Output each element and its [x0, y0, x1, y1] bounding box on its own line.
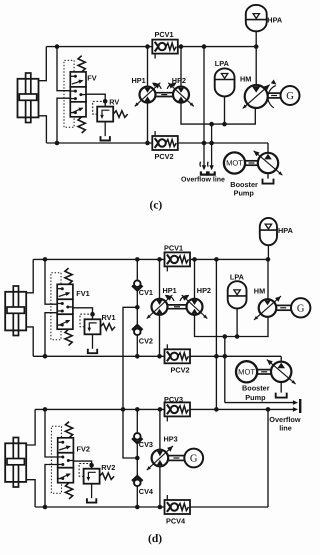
wire: vertical x224 line3-to-overflow [224, 337, 226, 403]
junction: HP1 bottom / bus2 [157, 354, 162, 359]
junction: overflow 1 / bottom bus [202, 141, 207, 146]
junction: x224 / bus2 [223, 354, 228, 359]
junction: x224 / line3 [223, 334, 228, 339]
svg-text:LPA: LPA [230, 273, 245, 282]
pilot check valve PCV4 [165, 500, 191, 514]
junction: FV2-B / bus4 [43, 505, 48, 510]
junction: HPA1 / bus1 [266, 257, 271, 262]
directional valve FV2 [58, 438, 74, 453]
wire: overflow line upper (to the right) [225, 402, 294, 404]
hydraulic cylinder (d) lower [13, 438, 18, 488]
svg-text:PCV2: PCV2 [155, 152, 174, 161]
junction: HPA / HM node [254, 44, 259, 49]
svg-text:PCV1: PCV1 [164, 243, 183, 252]
svg-text:(d): (d) [148, 533, 162, 545]
svg-text:CV4: CV4 [139, 487, 154, 496]
junction: overflow 2 / bottom bus [209, 141, 214, 146]
wire: cylinder bottom port to bottom bus [38, 116, 46, 143]
pilot check valve PCV1 (d) [165, 252, 191, 266]
svg-text:Pump: Pump [245, 393, 266, 402]
wire: FV pressure port to RV [86, 94, 105, 106]
directional valve FV1 [57, 284, 73, 299]
rotation arrows (d) [166, 295, 175, 301]
shaft HP1-HP2 (d) [168, 304, 186, 306]
wire: FV1 port A [45, 259, 57, 304]
junction: x216 end / bus3 [214, 407, 219, 412]
wire: cylinder top port to top bus [38, 47, 46, 81]
wire: HP3 bottom [159, 466, 161, 507]
wire: FV1 port B [45, 313, 57, 357]
hydraulic motor HM (d) [259, 299, 277, 317]
junction: FV-B / bottom bus [55, 141, 60, 146]
wire: LPA drop line [224, 96, 226, 124]
wire: FV2 port A [45, 409, 58, 457]
wire: HP1 top port [147, 47, 149, 87]
booster pump [258, 153, 278, 173]
accumulator HPA (d) [260, 218, 277, 245]
booster pump (d) [271, 362, 291, 382]
motor MOT (booster drive) [224, 152, 245, 173]
shaft HP3-G [169, 455, 185, 457]
pilot check valve PCV1 [152, 40, 178, 54]
wire: inter-circuit vertical x123 [123, 307, 137, 458]
check valve CV1 [134, 280, 141, 287]
wire: cylinder2 top to lower top bus [27, 409, 35, 445]
check valve CV4 [134, 480, 141, 487]
pump HP3 [152, 450, 169, 467]
junction: CV3/CV4 mid node [135, 456, 140, 461]
check valve CV2 [134, 329, 141, 336]
junction: right vert / bus3 [266, 407, 271, 412]
wire: HM1 drop [267, 259, 269, 299]
junction: CV mid node [135, 305, 140, 310]
pilot check valve PCV2 (d) [165, 349, 191, 363]
wire: HPA1 drop [267, 245, 269, 259]
junction: HP3 top / bus3 [158, 407, 163, 412]
svg-text:HM: HM [254, 286, 265, 295]
wire: HP2d top [194, 259, 196, 299]
svg-text:MOT: MOT [238, 368, 255, 377]
pump HP2 [173, 87, 189, 103]
svg-text:Booster: Booster [242, 383, 270, 392]
wire: bottom bus to booster pump inlet [267, 143, 269, 153]
rotation arrows above shaft [153, 83, 162, 89]
wire: overflow line drop 1 [203, 47, 205, 169]
wire: (d) lower bottom bus [35, 506, 268, 508]
svg-text:FV: FV [87, 74, 96, 83]
wire: FV port B to bottom bus [57, 98, 70, 143]
wire: cylinder1 top to bus [27, 259, 34, 292]
svg-text:HP2: HP2 [197, 286, 211, 295]
generator G [281, 86, 300, 105]
junction: CV line / bus2 [135, 354, 140, 359]
wire: cylinder2 bottom to lower bottom bus [27, 480, 35, 507]
junction: HP2 top / bus1 [192, 257, 197, 262]
junction: HP2 top / top bus [179, 44, 184, 49]
wire: FV2 port B [45, 465, 58, 508]
wire: FV port A from top bus [57, 47, 70, 91]
relief valve RV [103, 99, 108, 104]
svg-text:FV1: FV1 [76, 289, 89, 298]
shaft HM-G [268, 92, 281, 94]
wire: right vertical joining buses [267, 409, 269, 507]
shaft MOT-booster [245, 160, 258, 162]
junction: overflow drop / top bus [202, 44, 207, 49]
svg-text:HP3: HP3 [164, 435, 178, 444]
pilot check valve PCV3 [165, 402, 191, 416]
accumulator LPA [215, 68, 235, 96]
hydraulic cylinder (c) [26, 73, 31, 123]
generator G (d) [291, 298, 310, 317]
svg-text:HPA: HPA [278, 226, 294, 235]
wire: HP2 bottom port to low pressure line [181, 102, 255, 124]
wire: HP2d bottom to line3 [195, 314, 269, 336]
wire: FV2 pressure port to RV2 [74, 461, 92, 469]
wire: FV1 pressure port to RV1 [73, 308, 93, 320]
svg-text:HP1: HP1 [132, 76, 146, 85]
junction: FV1-A / bus1 [43, 257, 48, 262]
relief valve RV2 [89, 463, 94, 468]
svg-text:line: line [279, 424, 292, 433]
booster pump tank [267, 173, 269, 178]
shaft HP1-HP2 [156, 92, 173, 94]
junction: HP1 bottom / bottom bus [145, 141, 150, 146]
svg-text:HM: HM [240, 74, 251, 83]
relief valve RV1 [90, 312, 95, 317]
pump HP1 (d) [152, 299, 168, 315]
wire: HP1 bottom port [147, 102, 149, 143]
junction: FV1-B / bus2 [43, 354, 48, 359]
pump HP2 (d) [187, 299, 203, 315]
wire: (d) upper top bus [33, 258, 268, 260]
svg-text:RV1: RV1 [102, 313, 116, 322]
svg-text:Overflow line: Overflow line [181, 175, 225, 183]
wire: HP1d top [159, 259, 161, 299]
svg-text:PCV2: PCV2 [171, 365, 190, 374]
junction: x216 / bus1 [214, 257, 219, 262]
svg-text:HPA: HPA [267, 15, 283, 24]
wire: booster inlet drop [280, 356, 282, 362]
svg-text:MOT: MOT [226, 159, 243, 168]
wire: vertical x216 bus-to-lower-bus [215, 259, 217, 409]
junction: overflow 2 / LP line [209, 122, 214, 127]
junction: HP1 top / bus1 [157, 257, 162, 262]
hydraulic cylinder (d) upper [13, 286, 18, 336]
wire: cylinder1 bottom to bottom bus [27, 327, 34, 356]
hydraulic motor HM [245, 85, 268, 108]
svg-text:RV: RV [109, 97, 119, 106]
wire: CV1/CV2 line [136, 259, 138, 356]
svg-text:G: G [297, 303, 305, 314]
svg-text:G: G [190, 454, 198, 465]
wire: top bus (high pressure line) [46, 46, 256, 48]
directional valve FV [70, 72, 86, 87]
svg-text:CV3: CV3 [139, 440, 153, 449]
svg-text:Overflow: Overflow [269, 415, 301, 424]
svg-text:(c): (c) [150, 200, 163, 212]
junction: x216 / bus2 [214, 354, 219, 359]
svg-text:Pump: Pump [234, 188, 255, 197]
pilot check valve PCV2 [152, 136, 178, 150]
svg-text:FV2: FV2 [77, 445, 90, 454]
junction: LPA / LP line [222, 122, 227, 127]
svg-text:G: G [286, 91, 294, 102]
wire: overflow line drop 2 [211, 124, 213, 169]
pump HP1 [140, 87, 156, 103]
accumulator LPA (d) [228, 281, 247, 308]
svg-text:HP1: HP1 [163, 286, 177, 295]
shaft MOT-booster (d) [257, 369, 271, 371]
svg-text:PCV3: PCV3 [164, 395, 183, 404]
wire: (d) lower top bus / overflow [35, 408, 294, 410]
svg-text:CV2: CV2 [139, 337, 153, 346]
rotation arc at HM shaft [268, 86, 276, 108]
wire: (d) upper bottom bus [33, 355, 281, 357]
junction: LPA1 / line3 [235, 334, 240, 339]
wire: HPA/HM drop from top bus [255, 47, 257, 86]
wire: LPA1 drop [236, 309, 238, 337]
svg-text:CV1: CV1 [139, 288, 153, 297]
junction: CV4 line / bus4 [135, 505, 140, 510]
svg-text:LPA: LPA [215, 59, 230, 68]
junction: HP1 top / top bus [145, 44, 150, 49]
shaft HM-G (d) [276, 304, 292, 306]
booster tank (d) [280, 382, 282, 393]
wire: HP3 top [159, 409, 161, 450]
junction: FV2-A / bus3 [43, 407, 48, 412]
junction: FV-A / top bus [55, 44, 60, 49]
junction: CV3 line / bus3 [135, 407, 140, 412]
generator G (d lower) [184, 449, 203, 468]
check valve CV3 [134, 433, 141, 440]
junction: CV line / bus1 [135, 257, 140, 262]
junction: HP3 bottom / bus4 [158, 505, 163, 510]
motor MOT (d) [236, 361, 257, 382]
wire: HPA drop [255, 31, 257, 46]
accumulator HPA [246, 5, 267, 31]
wire: CV3/CV4 line [136, 409, 138, 507]
svg-text:RV2: RV2 [101, 463, 115, 472]
junction: x123 / bus3 [121, 407, 126, 412]
svg-text:PCV4: PCV4 [166, 516, 186, 525]
svg-text:PCV1: PCV1 [155, 30, 174, 39]
wire: bottom bus [46, 142, 268, 144]
wire: HP1d bottom [159, 314, 161, 356]
wire: HP2 top port [180, 47, 182, 87]
